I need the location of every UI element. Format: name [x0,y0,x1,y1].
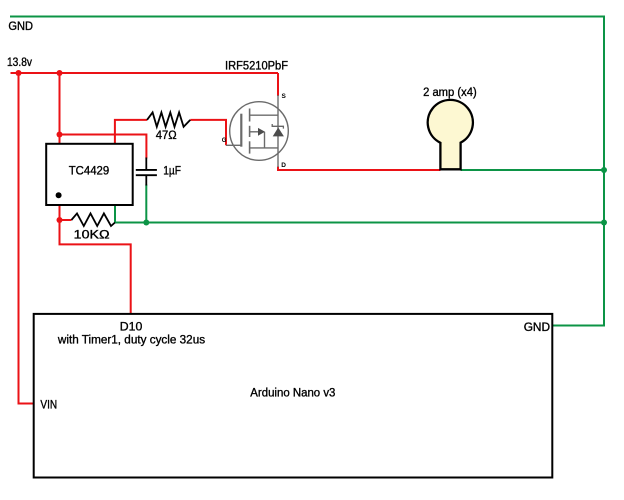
wire MOSFET source [277,73,279,96]
middle tap [250,131,258,133]
wire resistor to MOSFET gate [190,120,226,145]
svg-text:GND: GND [524,320,551,334]
Arduino Nano box [34,314,553,478]
wire TC4429 input to D10 [60,205,131,314]
junction green right-gnd [601,220,607,226]
wire 13.8v to TC4429 VDD [59,73,61,144]
junction green cap-gnd [143,220,149,226]
svg-text:10KΩ: 10KΩ [74,228,110,242]
body diode triangle [274,128,283,136]
drain tap [250,147,278,149]
source tap [250,114,278,116]
lamp bulb 2 amp [428,100,473,169]
junction red 13.8v-vin [16,70,22,76]
node GND top rail (green) [10,17,604,326]
wire MOSFET drain to bulb [278,167,440,171]
svg-text:13.8v: 13.8v [7,55,33,69]
capacitor C1 1uF [136,158,157,186]
svg-text:S: S [282,93,287,100]
svg-text:with Timer1, duty cycle 32us: with Timer1, duty cycle 32us [57,333,205,347]
wire 10K resistor left lead [60,219,72,221]
wire TC4429 GND pin [114,205,116,223]
resistor R2 10Kohm [71,213,115,226]
svg-text:Arduino Nano v3: Arduino Nano v3 [250,386,335,400]
arrow drop line [264,132,266,148]
svg-text:G: G [222,138,227,144]
body diode cathode bar [272,124,283,129]
svg-text:GND: GND [8,19,33,33]
wire 13.8v to VIN [19,73,34,404]
wire VDD to capacitor top [60,135,147,159]
svg-text:2 amp (x4): 2 amp (x4) [423,85,477,99]
channel segment bottom [249,141,251,153]
channel segment middle [249,126,251,137]
wire capacitor bottom to GND rail [145,185,147,223]
svg-text:IRF5210PbF: IRF5210PbF [225,59,288,73]
junction red input-d10 [57,217,63,223]
arrow of mosfet [258,128,265,136]
svg-text:VIN: VIN [40,398,57,412]
op-amp U1 TC4429 box [46,144,133,205]
source-drain vertical [277,95,279,167]
svg-text:TC4429: TC4429 [69,164,110,178]
transistor Q1 IRF5210PbF [226,95,288,167]
wire GND from bulb to right rail [461,169,604,171]
wire TC4429 out to resistor [115,120,147,144]
gate lead [226,144,241,146]
svg-text:1µF: 1µF [163,164,181,178]
body circle [230,102,289,161]
gate bar [240,114,242,147]
channel segment top [249,109,251,122]
svg-text:D: D [281,162,286,169]
junction red vdd-cap [57,132,63,138]
resistor R1 47ohm [147,112,190,126]
svg-text:47Ω: 47Ω [156,128,177,142]
svg-text:D10: D10 [120,320,143,334]
pin 1 marker dot [56,192,62,198]
junction red 13.8v-vdd [57,70,63,76]
wire GND rail from TC4429 to right [115,222,604,224]
wire 13.8v rail (red) [11,72,279,74]
junction green right-bulb [601,167,607,173]
